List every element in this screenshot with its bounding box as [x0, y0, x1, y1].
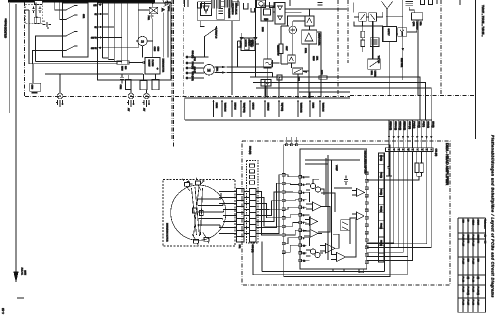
pcb top stub wires: [287, 137, 297, 144]
IC right-top amp: [352, 189, 365, 197]
antenna symbol: [382, 1, 393, 17]
IC amp transistor pair bottom: [306, 249, 323, 258]
y amp box: [398, 28, 407, 37]
svg-text:CHAS: CHAS: [471, 220, 474, 226]
diode box slash: [359, 13, 367, 22]
svg-text:Reference: Reference: [484, 220, 487, 230]
power bus collectors: [29, 58, 143, 74]
svg-text:SERVO: SERVO: [251, 40, 253, 47]
connector strip CN top (pins row): [386, 148, 434, 152]
svg-text:TMGROM: TMGROM: [224, 103, 226, 112]
staircase bus wire 3: [256, 88, 431, 120]
head exit arrows: [187, 180, 204, 184]
gate box: [383, 26, 397, 41]
video head top B: [196, 178, 202, 191]
dash-dot section border left: [24, 2, 26, 96]
xtal labels: [412, 22, 421, 31]
IC amp transistor pair top: [306, 179, 324, 195]
supply rail wire: [265, 3, 347, 12]
svg-text:CA5OM: CA5OM: [252, 103, 255, 110]
resistor R fan7: [415, 152, 419, 177]
elko C513: [140, 74, 147, 90]
right page margin rule: [475, 0, 477, 139]
relay cap: [150, 14, 153, 19]
bottom bus wire 1: [262, 242, 385, 272]
if mod box: [368, 59, 381, 69]
video head top A: [182, 179, 193, 191]
svg-text:GATE V: GATE V: [387, 29, 390, 37]
svg-text:ENV(8): ENV(8): [431, 121, 433, 128]
svg-text:9HEAD(4): 9HEAD(4): [394, 121, 397, 130]
bottom bus wire 2: [253, 242, 407, 275]
svg-text:F 4-17: F 4-17: [471, 241, 473, 247]
resistor join wire: [367, 176, 422, 180]
connector strip drum CN A: [237, 189, 245, 243]
IC op-amp A3: [320, 244, 339, 254]
IC mid amp: [352, 212, 364, 220]
junction box: [277, 75, 282, 80]
drum motor supply box: [145, 58, 160, 75]
svg-text:F 4-27: F 4-27: [461, 259, 463, 265]
second dash-dot divider left pair: [173, 0, 175, 147]
staircase bus wire 1: [250, 77, 420, 120]
servo box wires: [238, 41, 260, 67]
reference table: [458, 218, 486, 312]
table header texts: [484, 220, 487, 244]
svg-text:SW 9V: SW 9V: [91, 48, 98, 50]
IC switch box: [341, 220, 350, 231]
svg-text:PB9(2): PB9(2): [380, 223, 382, 229]
svg-text:REG: REG: [264, 19, 269, 21]
resistor chain: [361, 26, 365, 52]
traverse pwb box: [198, 2, 240, 21]
switch contact 4: [63, 45, 78, 51]
svg-text:PB9(2): PB9(2): [380, 155, 382, 161]
svg-text:F 4-42: F 4-42: [461, 277, 463, 283]
edge connector pin labels: [213, 100, 324, 118]
svg-text:29304-101.01: 29304-101.01: [235, 3, 237, 16]
bus resistor R572: [319, 70, 327, 79]
svg-text:CN1 (28): CN1 (28): [435, 149, 437, 157]
svg-text:GRUNDIG Service: GRUNDIG Service: [4, 18, 8, 38]
svg-text:MHz: MHz: [419, 22, 421, 26]
svg-text:DMA (2B): DMA (2B): [249, 146, 252, 155]
dash-dot bottom border tuner section: [350, 95, 474, 97]
svg-text:DR9M: DR9M: [215, 103, 217, 109]
svg-text:DR9M: DR9M: [312, 103, 314, 109]
svg-text:PB9(2): PB9(2): [380, 206, 382, 212]
svg-text:5.5MHz: 5.5MHz: [374, 71, 376, 78]
elko C514: [152, 74, 159, 90]
svg-text:TH(PWM): TH(PWM): [281, 103, 283, 112]
svg-text:F 4-63 (Y): F 4-63 (Y): [466, 287, 468, 296]
IC op-amp A1: [306, 202, 326, 211]
svg-text:9HEAD(2): 9HEAD(2): [389, 121, 392, 130]
switch feed wires: [33, 3, 64, 64]
connector pin contacts: [388, 149, 432, 151]
socket BU2: [127, 90, 135, 108]
relay feed dot: [152, 3, 154, 5]
svg-text:MDA1: MDA1: [167, 6, 170, 12]
crystal stack: [405, 2, 414, 13]
thick video wire: [354, 13, 383, 59]
socket BU3: [143, 90, 151, 107]
svg-text:M: M: [207, 67, 210, 72]
power rail arrows block: [91, 3, 128, 64]
video head bottom B: [203, 233, 209, 244]
drum assy dashed box: [163, 180, 235, 247]
xtal box: [412, 13, 423, 20]
DMA outer pcb box: [284, 145, 390, 277]
diode D501: [161, 2, 167, 57]
elko C511: [126, 75, 132, 90]
diode pack D561: [275, 3, 285, 25]
dash-dot divider power/traverse: [171, 0, 173, 140]
tuner wires misc: [354, 3, 418, 96]
wire pwb down: [201, 21, 232, 95]
wire mains vertical: [25, 3, 37, 64]
diode box backslash: [369, 13, 377, 22]
svg-text:GND(5): GND(5): [427, 121, 429, 128]
wire antenna to gate: [387, 16, 403, 26]
svg-text:PB9(24): PB9(24): [413, 121, 415, 128]
dash-dot bottom border of power section: [25, 96, 350, 98]
fan wire labels: [389, 121, 433, 130]
left margin tick: [17, 297, 24, 299]
IC op-amp A2: [304, 230, 322, 238]
wire from top bar to row5: [128, 3, 139, 48]
svg-text:DMA14A-HEAD AMP 7905: DMA14A-HEAD AMP 7905: [364, 151, 367, 175]
table cell texts: [0, 0, 1, 1]
svg-text:F 4-27: F 4-27: [476, 300, 478, 306]
junction dot: [36, 17, 38, 19]
pin loop wires right side: [367, 152, 432, 261]
svg-text:DRUM/DISC MOTOR: DRUM/DISC MOTOR: [166, 223, 168, 242]
capstan motor M561: [204, 64, 215, 75]
leaf switch SL: [200, 26, 216, 57]
svg-text:DMA - HEAD AMPLIFIER: DMA - HEAD AMPLIFIER: [445, 143, 449, 185]
svg-text:TMGROM: TMGROM: [322, 103, 324, 112]
connector strip CN B: [250, 189, 257, 243]
svg-text:DIGROM: DIGROM: [267, 103, 269, 111]
shielded cable dashed box: [247, 161, 259, 244]
servo amp box: [302, 30, 317, 44]
svg-text:SERVO IC501: SERVO IC501: [318, 33, 320, 46]
mains terminal on bar: [35, 1, 43, 5]
svg-text:DR5OM: DR5OM: [234, 103, 236, 110]
rotary transformer windings: [192, 187, 224, 237]
svg-text:CASS: CASS: [476, 220, 479, 226]
oscillator box: [264, 59, 272, 68]
svg-text:SL/TRAV LS: SL/TRAV LS: [215, 28, 218, 39]
svg-text:V-REF: V-REF: [335, 165, 337, 171]
motor feed lines: [186, 51, 209, 81]
svg-text:MOTOR: MOTOR: [244, 40, 246, 48]
IC internal wires: [310, 158, 356, 257]
svg-text:PLOUG: PLOUG: [151, 60, 153, 67]
relay P501: [149, 7, 158, 13]
table body texts: [461, 220, 479, 306]
left margin thin rule: [8, 3, 10, 113]
svg-text:0HEAD(3): 0HEAD(3): [399, 121, 402, 130]
switch contact 3: [63, 31, 78, 37]
svg-text:TVR 37 ... TVR 51 ... TVR: TVR 37 ... TVR 51 ... TVR 55 ...: [481, 5, 485, 37]
board-to-IC wires: [285, 175, 299, 252]
svg-text:F 4-27: F 4-27: [471, 259, 473, 265]
left margin arrow to TPW: [15, 4, 17, 272]
svg-text:F 4-63: F 4-63: [471, 300, 473, 306]
svg-text:F 4-17: F 4-17: [461, 241, 463, 247]
svg-text:F 4-65: F 4-65: [471, 287, 473, 293]
cap to ground C: [42, 21, 51, 29]
pcb left pin boxes: [282, 174, 285, 254]
interconnect wires A-B: [244, 192, 250, 234]
svg-text:9HEAD(1): 9HEAD(1): [403, 121, 406, 130]
IC gain stage stubs: [302, 177, 310, 261]
svg-text:DRUM MOTOR: DRUM MOTOR: [162, 59, 164, 73]
filter box R: [293, 68, 307, 74]
DMA block dash-dot border: [242, 141, 450, 285]
svg-text:PB9(2): PB9(2): [380, 172, 382, 178]
mains input dashed box: [25, 5, 42, 24]
svg-text:Plattenabbildungen und Schaltp: Plattenabbildungen und Schaltpläne / Lay…: [491, 135, 495, 298]
pcb edge connector box: [185, 98, 350, 120]
dash-dot divider servo right: [347, 0, 349, 63]
switch contact 1: [63, 5, 78, 11]
svg-text:SAW F501: SAW F501: [400, 58, 403, 68]
IC op-amp A5: [305, 218, 318, 226]
head drum circle: [171, 185, 226, 240]
opamp box V: [288, 55, 296, 63]
video head bottom A: [192, 234, 199, 246]
svg-text:F 4-65: F 4-65: [461, 287, 463, 293]
IC hybrid module box: [300, 149, 367, 269]
svg-text:MOUNT: MOUNT: [148, 60, 150, 68]
svg-text:CO: CO: [484, 241, 486, 244]
page top crop bar: [8, 0, 155, 3]
svg-text:TMGROM2: TMGROM2: [300, 103, 302, 114]
svg-text:9M3 (12): 9M3 (12): [191, 51, 193, 59]
svg-text:+: +: [157, 67, 159, 71]
connector strip CN right of IC: [379, 153, 385, 262]
svg-text:MODE SW: MODE SW: [277, 46, 279, 56]
socket BU1: [56, 74, 64, 107]
test point TP18: [138, 36, 147, 45]
switch contact 2: [63, 14, 78, 20]
IC cap C: [344, 176, 348, 186]
fuse cap 1: [32, 6, 35, 13]
svg-text:(Y): (Y): [476, 277, 478, 280]
IC bottom stub: [333, 269, 364, 273]
resistor R506: [117, 61, 145, 64]
diode to divider: [254, 0, 258, 77]
saw filter wire: [402, 0, 404, 80]
staircase bus wire 2: [253, 83, 426, 121]
svg-text:REC(9): REC(9): [417, 121, 419, 128]
IC internal bus: [305, 155, 360, 260]
svg-text:SPM: SPM: [193, 57, 195, 62]
svg-text:TDK 700: TDK 700: [377, 56, 379, 64]
resistor R565: [277, 44, 284, 54]
drum center parts: [193, 208, 204, 216]
motor out arrows: [214, 60, 272, 77]
riser wires to servo: [265, 74, 310, 98]
svg-text:DRIVE: DRIVE: [248, 40, 250, 47]
opamp box IC562: [305, 16, 314, 26]
capacitor C on first fan wire: [386, 167, 392, 177]
drum to CN wires: [219, 192, 237, 234]
cap C512: [120, 73, 124, 83]
relay wires: [138, 3, 168, 58]
regulator box IC561: [261, 6, 273, 21]
svg-text:4 - 10: 4 - 10: [1, 308, 5, 314]
head signal fan wires: [389, 120, 431, 148]
dash-dot divider right of power section: [182, 0, 184, 97]
svg-text:9M2 (1/10): 9M2 (1/10): [191, 72, 193, 81]
svg-text:TO TPW: TO TPW: [22, 267, 24, 275]
IC right pin boxes: [365, 172, 368, 264]
mains filter box: [34, 17, 40, 23]
svg-text:F 4-63: F 4-63: [461, 300, 463, 306]
dash-dot divider tuner right: [440, 0, 442, 96]
switch unit box SW1: [63, 3, 89, 57]
motor drive servo box: [241, 38, 255, 51]
svg-text:PB9(2): PB9(2): [380, 240, 382, 246]
svg-text:PB9 (20): PB9 (20): [191, 62, 193, 70]
staircase wires B-board: [256, 175, 282, 235]
svg-text:F 4-42: F 4-42: [471, 277, 473, 283]
top cut component fragments: [163, 0, 460, 12]
IC op-amp A4: [331, 253, 350, 262]
servo section bottom edge: [299, 91, 350, 93]
svg-text:SWP(25): SWP(25): [408, 121, 410, 129]
power pcb box: [98, 3, 172, 80]
servo wires: [268, 9, 321, 98]
comb filter box: [370, 38, 379, 47]
svg-text:(Y): (Y): [466, 277, 468, 280]
svg-text:SW 5V: SW 5V: [91, 38, 98, 40]
svg-text:F 4-63 (Y): F 4-63 (Y): [476, 287, 478, 296]
fuse cap 2: [39, 6, 42, 13]
IC left pin boxes: [299, 176, 306, 263]
svg-text:PB9(2): PB9(2): [380, 189, 382, 195]
resistor R fan8: [420, 152, 424, 177]
speed sensor circle: [289, 26, 297, 34]
svg-text:9V(12): 9V(12): [422, 121, 424, 127]
diode MS01: [239, 33, 249, 50]
dash-dot divider servo left: [337, 0, 339, 97]
shield plate box: [30, 64, 41, 94]
pcb top edge pin marks: [286, 144, 298, 146]
strip label column: [380, 155, 382, 246]
oscillator box 2: [261, 80, 271, 97]
fan wire arrowheads: [388, 136, 433, 139]
cable filter parts: [250, 164, 255, 184]
svg-text:THR(PWM): THR(PWM): [243, 103, 245, 113]
TP wires: [136, 41, 153, 58]
svg-text:F 4-27: F 4-27: [466, 300, 468, 306]
